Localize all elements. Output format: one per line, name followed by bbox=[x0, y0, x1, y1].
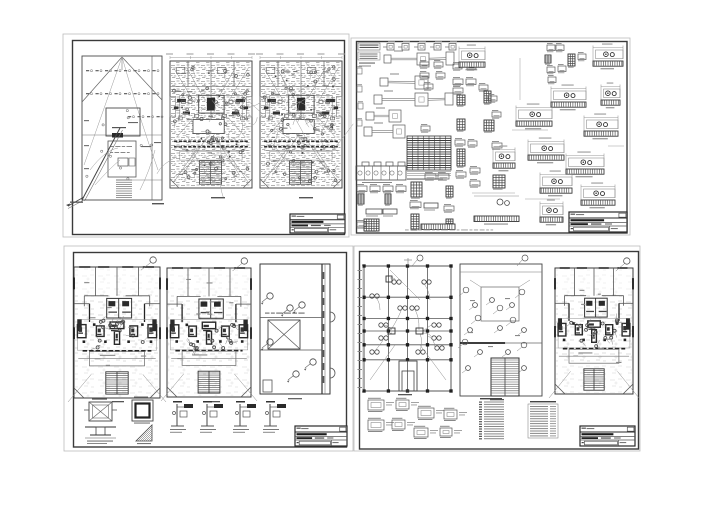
sheet 3: service mast detail 4 bbox=[263, 401, 286, 433]
sheet 3: roof plan bbox=[260, 264, 335, 399]
sheet 3: tank plan detail bbox=[132, 397, 153, 424]
sheet 1 (electrical plans) outer border bbox=[63, 34, 349, 237]
sheet 3: service mast detail 2 bbox=[200, 401, 223, 433]
sheet 2: beam detail V-5 bbox=[516, 104, 552, 130]
sheet 2: beam detail V-10 bbox=[581, 183, 615, 209]
sheet 3: cistern section detail bbox=[85, 427, 116, 444]
sheet 2: long beam elevation bottom 2 bbox=[421, 224, 455, 230]
sheet 2: rebar bending schedule table bbox=[407, 136, 451, 180]
sheet 3: hatched cone detail bbox=[136, 425, 152, 444]
sheet 2: center column details bbox=[410, 172, 454, 231]
sheet 1: left site-section plan bbox=[66, 56, 163, 209]
sheet 2: small bar grids left bbox=[358, 194, 391, 206]
sheet 2: beam strip stamps row 2 bbox=[357, 209, 397, 229]
sheet 1: title block bbox=[290, 214, 345, 233]
sheet 3: cistern plan detail bbox=[84, 399, 117, 422]
sheet 3: scale labels bbox=[112, 398, 288, 402]
sheet 2: column section C1 bbox=[383, 41, 395, 50]
sheet 2: long beam elevation bottom bbox=[474, 196, 519, 225]
sheet 2: footing chain Z-1 bbox=[384, 51, 454, 66]
sheet 2: beam detail V-8 bbox=[566, 152, 604, 178]
sheet 1: first-floor electrical plan bbox=[157, 54, 263, 198]
sheet 2: foundation plan strip bbox=[356, 162, 406, 183]
sheet 3: second-floor plan bbox=[161, 258, 257, 401]
sheet 2: footing chain Z-4 bbox=[366, 108, 401, 123]
sheet 2: beam detail V-3 bbox=[601, 83, 620, 109]
sheet 2: beam detail V-12 bbox=[540, 200, 563, 226]
sheet 2: beam detail V-2 bbox=[593, 44, 623, 70]
sheet 2 (structural details) outer border bbox=[351, 38, 630, 235]
sheet 2 inner frame bbox=[357, 42, 628, 234]
sheet 4: upper-floor plan bbox=[549, 258, 639, 398]
sheet 2: dimension lines bbox=[472, 58, 624, 199]
sheet 2: beam detail V-6 bbox=[584, 114, 618, 140]
sheet 4: title block bbox=[580, 426, 635, 446]
sheet 2: beam detail V-11 bbox=[540, 171, 572, 197]
sheet 3 inner frame bbox=[74, 253, 347, 448]
sheet 2: column section C2 bbox=[398, 41, 410, 50]
sheet 4: ground-floor lighting plan bbox=[458, 255, 542, 400]
sheet 2: beam detail V-9 bbox=[493, 146, 515, 172]
sheet 2: section stamps row 1 bbox=[357, 184, 406, 193]
sheet 2: upper-middle stamps bbox=[420, 60, 501, 133]
sheet 4: foundation grid plan bbox=[358, 255, 453, 395]
sheet 2: footing chain Z-3 bbox=[374, 91, 453, 107]
sheet 1 inner frame bbox=[73, 41, 345, 235]
sheet 2: right stamp cluster bbox=[545, 43, 586, 84]
sheet 2: bottom-left mesh grid bbox=[364, 219, 379, 233]
sheet 2: column section C4 bbox=[430, 41, 442, 50]
sheet 3: first-floor plan bbox=[68, 257, 166, 402]
sheet 2: bottom notes bbox=[405, 229, 493, 232]
sheet 3: service mast detail 1 bbox=[170, 401, 193, 433]
sheet 2: footing chain Z-2 bbox=[380, 74, 428, 90]
sheet 3 (architectural plans) outer border bbox=[64, 246, 353, 451]
sheet 2: left margin small details bbox=[357, 66, 363, 126]
sheet 1: scale labels bbox=[152, 197, 313, 204]
sheet 4: load schedule table bbox=[528, 401, 558, 438]
sheet 2: column section C3 bbox=[414, 41, 426, 50]
sheet 3: service mast detail 3 bbox=[233, 401, 256, 433]
sheet 2: beam detail V-7 bbox=[528, 138, 564, 164]
sheet 2: beam detail V-4 bbox=[551, 85, 586, 111]
sheet 1: second-floor electrical plan bbox=[248, 54, 354, 189]
sheet 4: symbol legend table bbox=[479, 398, 504, 439]
sheet 2: column section C5 bbox=[445, 41, 457, 50]
sheet 4 inner frame bbox=[360, 252, 639, 450]
sheet 4 (electrical riser/plans) outer border bbox=[354, 246, 640, 451]
sheet 2: legend text blocks bbox=[358, 43, 380, 67]
sheet 2: title block bbox=[569, 212, 627, 232]
sheet 3: title block bbox=[295, 426, 347, 446]
sheet 4: grounding details bbox=[368, 398, 467, 439]
sheet 2: beam detail V-1 bbox=[459, 45, 485, 71]
sheet 2: footing chain Z-5 bbox=[364, 123, 405, 139]
sheet 2: middle detail grids bbox=[453, 77, 505, 190]
